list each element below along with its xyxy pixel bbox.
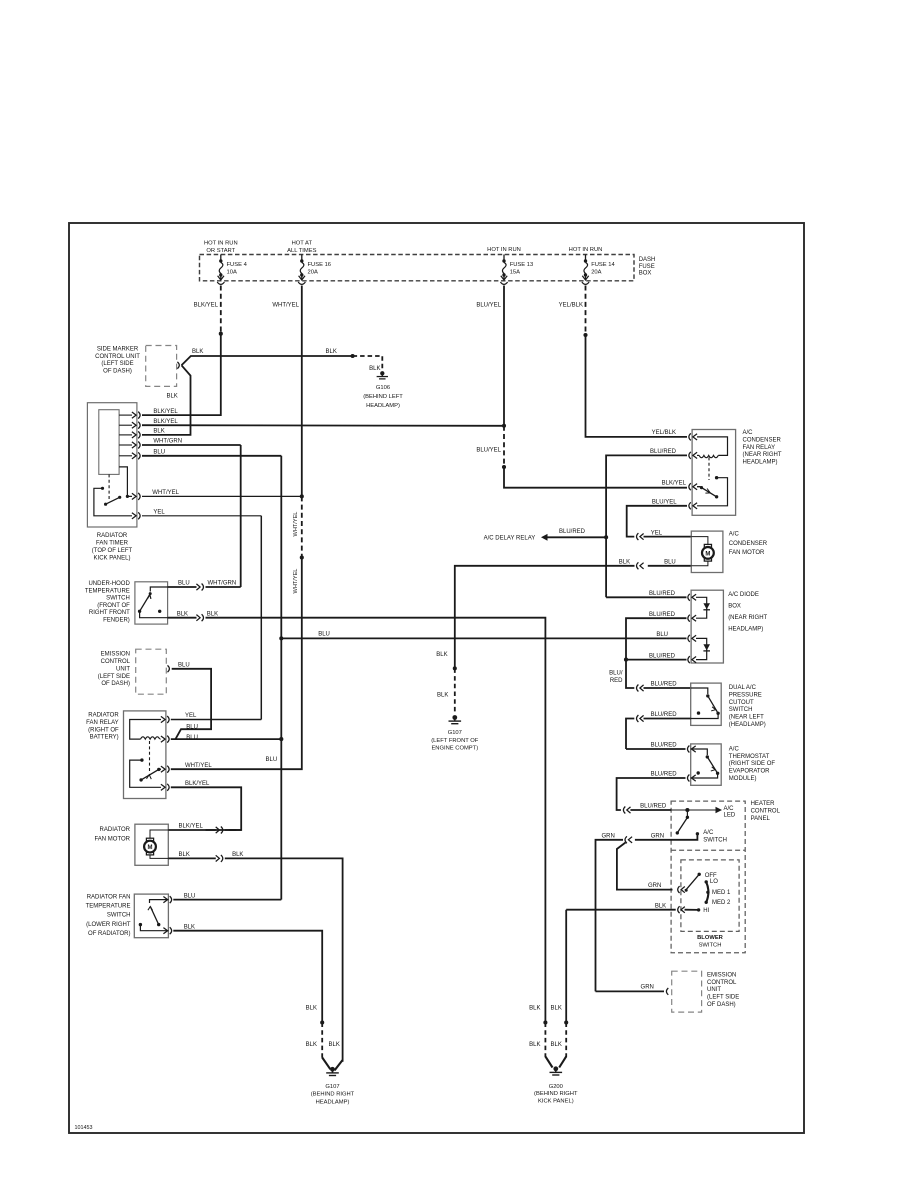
svg-text:MODULE): MODULE) [729, 776, 757, 782]
timer pin 2 BLK/YEL [119, 424, 132, 426]
svg-text:BLU/RED: BLU/RED [651, 712, 678, 718]
svg-text:BLK: BLK [306, 1042, 317, 1048]
timer pin 3 BLK [119, 434, 132, 436]
svg-text:BLK/YEL: BLK/YEL [153, 419, 178, 425]
svg-text:BATTERY): BATTERY) [90, 735, 119, 741]
svg-text:WHT/YEL: WHT/YEL [185, 763, 212, 769]
AC relay fixed contact [715, 476, 718, 479]
svg-text:BLK: BLK [184, 924, 195, 930]
timer switch contact [101, 487, 104, 490]
svg-text:KICK PANEL): KICK PANEL) [538, 1098, 574, 1104]
page border frame [69, 223, 804, 1133]
svg-text:UNDER-HOOD: UNDER-HOOD [88, 581, 130, 587]
wire YEL/BLK to A/C condenser fan relay pin1 [586, 335, 688, 437]
fuse FUSE 4 10A [220, 255, 222, 260]
dual A/C pressure cutout switch box [691, 683, 722, 725]
relay switch arm [141, 769, 161, 780]
svg-text:SIDE MARKER: SIDE MARKER [97, 346, 139, 352]
A/C condenser fan motor box [691, 531, 723, 572]
svg-text:BLK: BLK [655, 903, 666, 909]
svg-text:BLU: BLU [178, 581, 190, 587]
svg-text:(FRONT OF: (FRONT OF [97, 603, 130, 609]
wire row6 WHT/YEL [142, 495, 302, 497]
svg-text:FAN MOTOR: FAN MOTOR [94, 836, 130, 842]
svg-text:BLU: BLU [153, 450, 165, 456]
svg-text:M: M [148, 845, 153, 851]
timer pin 1 BLK/YEL [119, 414, 132, 416]
blower LO-MED2 arc [706, 882, 708, 902]
side marker control unit box [146, 346, 177, 387]
wire WHT/YEL dashed segment [301, 496, 303, 557]
svg-text:(RIGHT SIDE OF: (RIGHT SIDE OF [729, 761, 776, 767]
svg-text:WHT/YEL: WHT/YEL [272, 302, 299, 308]
junction A/C delay relay branch [604, 535, 608, 539]
svg-text:BLK/YEL: BLK/YEL [153, 409, 178, 415]
svg-text:20A: 20A [308, 269, 318, 275]
side marker pin connector [177, 362, 179, 369]
svg-text:BLU/YEL: BLU/YEL [476, 302, 501, 308]
svg-text:CUTOUT: CUTOUT [729, 700, 754, 706]
heater control panel divider [671, 849, 745, 851]
svg-text:RADIATOR FAN: RADIATOR FAN [87, 894, 131, 900]
AC relay switch arm [697, 487, 717, 497]
wire WHT/GRN bus [240, 445, 242, 587]
blower contact MED 1 [706, 891, 709, 894]
svg-text:WHT/GRN: WHT/GRN [208, 581, 237, 587]
svg-text:A/C: A/C [729, 532, 740, 538]
wire BLU / WHT/GRN from under-hood switch [168, 586, 197, 588]
splice on fuse4 drop [219, 332, 223, 336]
timer pin 5 BLU [119, 455, 132, 457]
svg-text:FUSE 13: FUSE 13 [510, 262, 534, 268]
relay fixed contact [140, 758, 143, 761]
junction BLU bus / relay pin2 [279, 737, 283, 741]
wire row4 WHT/GRN [142, 444, 241, 446]
wire BLK lower branch to timer pin3 [142, 365, 191, 435]
svg-text:OF DASH): OF DASH) [707, 1002, 736, 1008]
svg-text:A/C DIODE: A/C DIODE [728, 592, 759, 598]
svg-text:BLK: BLK [179, 852, 190, 858]
splice BLK center [453, 666, 457, 670]
svg-text:101453: 101453 [75, 1125, 93, 1131]
radiator fan timer inner module [99, 410, 119, 475]
svg-text:OF DASH): OF DASH) [103, 369, 132, 375]
wire BLK from motor to G107 [168, 857, 216, 859]
motor internal bottom lead [150, 855, 168, 859]
blower contact HI [697, 908, 700, 911]
wire row5 BLU [142, 455, 281, 457]
wire YEL/BLK from fuse 14 (dashed) [585, 286, 587, 336]
svg-text:MED 1: MED 1 [712, 890, 731, 896]
svg-text:THERMOSTAT: THERMOSTAT [729, 754, 770, 760]
svg-text:BLU: BLU [318, 632, 330, 638]
motor internal top lead [150, 830, 168, 838]
emission control unit (right) box [672, 971, 702, 1012]
svg-text:BLK: BLK [207, 611, 218, 617]
AC motor internal bottom lead [691, 561, 708, 566]
svg-text:BLU/RED: BLU/RED [640, 804, 667, 810]
under-hood temperature switch box [135, 582, 168, 624]
under-hood free contact [158, 610, 161, 613]
blower GRN connector [681, 887, 685, 893]
svg-text:HEADLAMP): HEADLAMP) [316, 1100, 350, 1106]
svg-text:BLU/RED: BLU/RED [559, 529, 586, 535]
svg-text:A/C DELAY RELAY: A/C DELAY RELAY [484, 536, 536, 542]
AC relay pin4 BLU/YEL [693, 503, 697, 509]
svg-text:BLK: BLK [329, 1042, 340, 1048]
svg-text:OF DASH): OF DASH) [101, 681, 130, 687]
diode box pin4 BLU/RED [692, 657, 696, 663]
svg-text:SWITCH: SWITCH [107, 913, 131, 919]
svg-text:(TOP OF LEFT: (TOP OF LEFT [92, 548, 133, 554]
blower switch box [681, 860, 739, 932]
wire BLU/RED from thermostat pin2 [617, 778, 686, 810]
diode box pin2 BLU/RED [692, 615, 696, 621]
svg-text:CONDENSER: CONDENSER [743, 438, 782, 444]
svg-text:FENDER): FENDER) [103, 618, 130, 624]
svg-text:CONTROL: CONTROL [751, 808, 781, 814]
svg-text:10A: 10A [227, 269, 237, 275]
svg-text:BLK: BLK [529, 1006, 540, 1012]
radiator fan relay box [124, 711, 166, 799]
svg-text:BLU/YEL: BLU/YEL [476, 447, 501, 453]
A/C switch contact [696, 832, 699, 835]
svg-text:(NEAR RIGHT: (NEAR RIGHT [728, 615, 767, 621]
svg-text:BLK: BLK [177, 611, 188, 617]
wire BLK/YEL from fuse 4 (dashed) [220, 286, 222, 334]
wire BLU/RED to A/C LED [627, 807, 631, 813]
timer contact path to pin7 YEL [94, 488, 132, 516]
svg-text:20A: 20A [591, 269, 601, 275]
wire GRN from A/C switch [635, 835, 698, 840]
svg-text:UNIT: UNIT [707, 987, 721, 993]
svg-text:RIGHT FRONT: RIGHT FRONT [89, 610, 130, 616]
svg-text:BLU/RED: BLU/RED [650, 449, 677, 455]
svg-text:BLU/: BLU/ [609, 671, 623, 677]
svg-text:SWITCH: SWITCH [106, 596, 130, 602]
svg-text:WHT/YEL: WHT/YEL [293, 512, 299, 537]
A/C condenser fan relay box [692, 430, 736, 516]
wire BLU/RED to pressure switch pin1 [626, 660, 634, 688]
wire YEL relay pin1 [171, 719, 261, 721]
svg-text:(HEADLAMP): (HEADLAMP) [729, 722, 766, 728]
svg-text:BLU/RED: BLU/RED [649, 653, 676, 659]
heater control panel box [671, 801, 745, 953]
svg-text:YEL/BLK: YEL/BLK [559, 302, 583, 308]
radiator fan timer box [87, 403, 136, 527]
svg-text:EMISSION: EMISSION [707, 972, 736, 978]
motor M1 symbol [144, 841, 156, 853]
svg-text:BLU: BLU [186, 725, 198, 731]
timer pin 4 WHT/GRN [119, 444, 132, 446]
wire BLU to temp switch [173, 899, 281, 901]
wire BLU/RED to A/C delay relay [548, 536, 607, 538]
relay coil [141, 737, 160, 739]
svg-text:(BEHIND RIGHT: (BEHIND RIGHT [311, 1092, 355, 1098]
svg-text:(RIGHT OF: (RIGHT OF [88, 727, 119, 733]
svg-text:FUSE 4: FUSE 4 [227, 262, 248, 268]
AC relay pin1 YEL/BLK [693, 434, 697, 440]
wire BLU/RED diode pin2 down [626, 618, 687, 659]
wire BLU relay pin2 to BLU bus [171, 738, 281, 740]
emission control unit (left) box [136, 649, 167, 694]
svg-text:EVAPORATOR: EVAPORATOR [729, 769, 770, 775]
A/C LED arrow [716, 807, 723, 813]
wire BLK dashed to G106 [353, 356, 383, 371]
wire row2 BLK/YEL to junction [142, 424, 504, 427]
svg-text:(BEHIND RIGHT: (BEHIND RIGHT [534, 1091, 578, 1097]
svg-text:BLK: BLK [437, 692, 448, 698]
A/C diode box [691, 590, 723, 663]
splice YEL/BLK [583, 333, 587, 337]
wire BLU/RED diode pin4 [626, 659, 687, 661]
wire BLK/YEL fuse4 to timer pin1 [142, 334, 221, 415]
blower contact LO [705, 880, 708, 883]
AC motor internal top lead [691, 537, 708, 545]
wire BLK/YEL to A/C condenser fan relay pin3 [504, 467, 687, 488]
svg-text:BLU/RED: BLU/RED [651, 772, 678, 778]
svg-text:BLU/RED: BLU/RED [649, 612, 676, 618]
svg-text:RADIATOR: RADIATOR [88, 713, 119, 719]
svg-text:PRESSURE: PRESSURE [729, 692, 762, 698]
svg-text:FAN RELAY: FAN RELAY [743, 445, 776, 451]
svg-text:A/C: A/C [743, 430, 754, 436]
svg-text:RED: RED [610, 678, 623, 684]
splice BLK near G106 [351, 354, 355, 358]
svg-text:LO: LO [710, 879, 718, 885]
svg-text:BLU/RED: BLU/RED [651, 743, 678, 749]
svg-text:A/C: A/C [724, 806, 735, 812]
svg-text:BLK: BLK [232, 852, 243, 858]
svg-text:(LEFT SIDE: (LEFT SIDE [707, 995, 739, 1001]
svg-text:BLK: BLK [166, 393, 177, 399]
diode box pin3 BLU [692, 635, 696, 641]
svg-text:PANEL: PANEL [751, 816, 771, 822]
wire BLK/YEL motor [206, 829, 237, 831]
AC relay pin3 BLK/YEL [693, 484, 697, 490]
wire BLK dashed to G200 right [565, 1023, 567, 1058]
wire BLK upper branch from side marker [182, 356, 353, 365]
ground G106 [380, 371, 384, 375]
svg-text:RADIATOR: RADIATOR [100, 827, 131, 833]
svg-text:DASH: DASH [639, 257, 656, 263]
wire BLK solid to G107 [335, 1060, 343, 1070]
temp switch common contact [139, 923, 142, 926]
svg-text:BLOWER: BLOWER [697, 935, 724, 941]
svg-text:BLU: BLU [266, 757, 278, 763]
relay coil loop [130, 720, 161, 740]
svg-text:15A: 15A [510, 269, 520, 275]
wire BLU bus [280, 456, 282, 900]
wire BLU/RED to diode pin1 [606, 596, 686, 598]
svg-text:BLK/YEL: BLK/YEL [662, 481, 687, 487]
svg-text:SWITCH: SWITCH [729, 707, 753, 713]
thermostat pin1 connector [692, 746, 696, 752]
wire GRN to ECU right [596, 990, 665, 992]
thermostat internal [691, 749, 708, 755]
blower contact MED 2 [705, 901, 708, 904]
wire WHT/YEL down to radiator fan relay [171, 558, 302, 770]
svg-text:HEADLAMP): HEADLAMP) [728, 626, 763, 632]
diode box pin1 BLU/RED [692, 594, 696, 600]
svg-text:BLK/YEL: BLK/YEL [194, 302, 219, 308]
svg-text:BLK: BLK [436, 652, 447, 658]
junction A/C switch [685, 808, 689, 812]
svg-text:GRN: GRN [651, 834, 664, 840]
svg-text:G200: G200 [549, 1084, 563, 1090]
AC relay actuation dashed [708, 457, 710, 480]
svg-text:BLK/YEL: BLK/YEL [179, 824, 204, 830]
svg-text:(LOWER RIGHT: (LOWER RIGHT [86, 922, 131, 928]
svg-text:OF RADIATOR): OF RADIATOR) [88, 931, 130, 937]
blower contact OFF [698, 873, 701, 876]
svg-text:BLK: BLK [369, 366, 380, 372]
svg-text:SWITCH: SWITCH [703, 838, 727, 844]
under-hood BLK internal [140, 611, 168, 617]
wire BLK/YEL motor stub [168, 829, 216, 831]
svg-text:BLU: BLU [656, 632, 668, 638]
svg-text:(LEFT SIDE: (LEFT SIDE [101, 361, 133, 367]
svg-text:BLU: BLU [184, 893, 196, 899]
svg-text:HOT AT: HOT AT [292, 241, 313, 247]
svg-text:MED 2: MED 2 [712, 900, 731, 906]
svg-text:(LEFT SIDE: (LEFT SIDE [98, 674, 130, 680]
splice BLK [320, 1020, 324, 1024]
temp switch BLU internal [150, 900, 169, 903]
svg-text:BLU: BLU [178, 663, 190, 669]
svg-text:BLK/YEL: BLK/YEL [185, 781, 210, 787]
svg-text:BLU/RED: BLU/RED [651, 682, 678, 688]
splice BLU/YEL [502, 465, 506, 469]
svg-text:BLK: BLK [153, 429, 164, 435]
svg-text:HOT IN RUN: HOT IN RUN [569, 247, 603, 253]
svg-text:BLU/RED: BLU/RED [649, 591, 676, 597]
svg-text:TEMPERATURE: TEMPERATURE [85, 588, 130, 594]
wire BLU from ECU to radiator fan relay pin2 [172, 669, 211, 739]
ground G200 [553, 1066, 558, 1071]
junction diode pin4 [624, 658, 628, 662]
svg-text:BOX: BOX [728, 604, 741, 610]
svg-text:HEATER: HEATER [751, 801, 776, 807]
fuse FUSE 16 20A [301, 255, 303, 260]
svg-text:TEMPERATURE: TEMPERATURE [86, 903, 131, 909]
junction BLU/YEL [502, 424, 506, 428]
A/C thermostat box [691, 744, 722, 785]
junction BLU bus/row [279, 636, 283, 640]
wire BLK from temp switch to G107 [173, 931, 322, 1023]
svg-text:GRN: GRN [601, 834, 614, 840]
wire BLK/YEL relay pin4 to motor [171, 787, 241, 830]
diode D1 [696, 597, 707, 618]
svg-text:BOX: BOX [639, 271, 652, 277]
svg-text:HEADLAMP): HEADLAMP) [366, 403, 400, 409]
svg-text:G107: G107 [325, 1084, 339, 1090]
svg-text:BLK: BLK [551, 1042, 562, 1048]
fuse FUSE 13 15A [503, 255, 505, 260]
svg-text:KICK PANEL): KICK PANEL) [94, 556, 131, 562]
wire BLK condenser motor to G107 [648, 565, 692, 567]
svg-text:BLU: BLU [664, 560, 676, 566]
svg-text:CONTROL UNIT: CONTROL UNIT [95, 354, 140, 360]
svg-text:FAN MOTOR: FAN MOTOR [729, 550, 765, 556]
svg-text:G107: G107 [448, 730, 462, 736]
wire BLU/YEL from AC relay pin4 to motor [627, 506, 687, 537]
AC relay coil loop [697, 437, 728, 456]
svg-text:UNIT: UNIT [116, 666, 130, 672]
svg-text:(NEAR RIGHT: (NEAR RIGHT [743, 452, 782, 458]
pressure switch internal [691, 688, 708, 694]
radiator fan motor box [135, 824, 168, 865]
AC relay pin2 BLU/RED [693, 452, 697, 458]
ground G107 (behind right headlamp) [330, 1067, 335, 1072]
timer switch arm [106, 497, 120, 504]
svg-text:YEL: YEL [651, 530, 663, 536]
relay actuation dashed [149, 741, 151, 772]
svg-text:FUSE 16: FUSE 16 [308, 262, 332, 268]
timer pin 7 YEL [132, 513, 136, 519]
svg-text:(NEAR LEFT: (NEAR LEFT [729, 715, 764, 721]
svg-text:RADIATOR: RADIATOR [97, 533, 128, 539]
svg-text:ALL TIMES: ALL TIMES [287, 248, 316, 254]
A/C switch arm [686, 810, 688, 818]
wire BLK dashed to G107 center [454, 668, 456, 714]
wire BLK dashed to G107 [321, 1023, 323, 1059]
wire BLU/RED from AC relay pin2 [606, 455, 687, 597]
svg-text:(BEHIND LEFT: (BEHIND LEFT [363, 394, 403, 400]
svg-text:A/C: A/C [729, 746, 740, 752]
wire YEL bus [260, 516, 262, 720]
svg-text:YEL: YEL [153, 509, 165, 515]
svg-text:BLU/YEL: BLU/YEL [652, 499, 677, 505]
ground G107 (left front of engine compt) [452, 715, 457, 720]
timer internal link to pin6 [119, 467, 132, 497]
svg-text:HI: HI [703, 908, 709, 914]
svg-text:SWITCH: SWITCH [699, 943, 722, 949]
blower arm [685, 874, 700, 889]
svg-text:WHT/YEL: WHT/YEL [152, 490, 179, 496]
svg-text:BLK: BLK [551, 1006, 562, 1012]
dash fuse box outline [200, 255, 635, 281]
svg-text:FUSE: FUSE [639, 264, 655, 270]
svg-text:CONDENSER: CONDENSER [729, 541, 768, 547]
timer coil actuation dashed [108, 474, 110, 500]
svg-text:FAN TIMER: FAN TIMER [96, 541, 129, 547]
svg-text:OR START: OR START [206, 248, 235, 254]
wire WHT/YEL from fuse 16 [301, 286, 303, 497]
temp switch pin BLU [163, 897, 167, 903]
svg-text:EMISSION: EMISSION [101, 652, 130, 658]
radiator fan temperature switch box [134, 894, 168, 938]
svg-text:FUSE 14: FUSE 14 [591, 262, 615, 268]
motor M2 symbol [702, 547, 714, 559]
wire BLU/YEL dashed segment [503, 426, 505, 467]
svg-text:BLK: BLK [619, 560, 630, 566]
relay pin1 YEL [161, 716, 165, 722]
wire BLK from blower HI [685, 909, 699, 911]
wire BLU/RED from pressure switch pin2 [644, 718, 691, 720]
splice G200 right [564, 1020, 568, 1024]
svg-text:(LEFT FRONT OF: (LEFT FRONT OF [431, 738, 479, 744]
svg-text:ENGINE COMPT): ENGINE COMPT) [431, 746, 478, 752]
fuse FUSE 14 20A [585, 255, 587, 260]
svg-text:YEL/BLK: YEL/BLK [652, 430, 676, 436]
svg-text:OFF: OFF [705, 873, 717, 879]
diode D2 [696, 638, 707, 659]
ECU left pin connector [168, 665, 170, 672]
svg-text:CONTROL: CONTROL [707, 980, 737, 986]
wire BLU row to A/C diode box [281, 637, 686, 639]
junction WHT/YEL row6 [300, 494, 304, 498]
